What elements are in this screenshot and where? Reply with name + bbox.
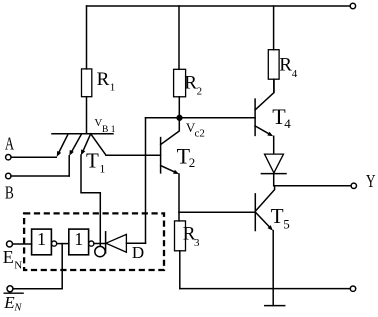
- svg-text:N: N: [14, 260, 22, 272]
- svg-text:1: 1: [74, 229, 83, 249]
- svg-text:N: N: [13, 302, 22, 313]
- svg-text:c2: c2: [195, 128, 205, 140]
- svg-text:1: 1: [99, 162, 105, 176]
- svg-text:Y: Y: [366, 171, 376, 191]
- svg-text:E: E: [3, 247, 14, 267]
- svg-text:R: R: [279, 54, 292, 75]
- svg-text:E: E: [3, 293, 15, 312]
- svg-text:B 1: B 1: [102, 125, 116, 135]
- svg-text:R: R: [184, 73, 197, 94]
- svg-text:A: A: [5, 133, 14, 153]
- svg-text:4: 4: [284, 116, 291, 131]
- svg-text:1: 1: [37, 229, 46, 249]
- svg-text:T: T: [86, 149, 99, 173]
- svg-text:4: 4: [292, 68, 298, 80]
- svg-text:D: D: [132, 243, 144, 262]
- svg-text:R: R: [97, 69, 110, 90]
- svg-text:T: T: [271, 204, 284, 228]
- svg-text:1: 1: [110, 82, 116, 94]
- svg-text:2: 2: [189, 155, 196, 170]
- svg-text:3: 3: [194, 237, 200, 249]
- svg-text:5: 5: [283, 216, 290, 231]
- svg-text:B: B: [5, 182, 14, 202]
- svg-text:2: 2: [197, 86, 203, 98]
